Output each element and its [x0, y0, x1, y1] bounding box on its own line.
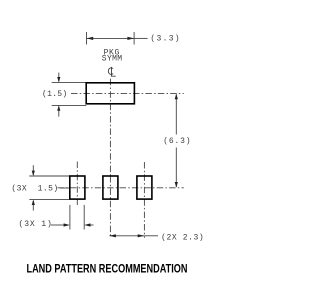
svg-text:LAND PATTERN RECOMMENDATION: LAND PATTERN RECOMMENDATION: [27, 263, 188, 275]
svg-text:(3X 1.5): (3X 1.5): [11, 184, 58, 193]
svg-text:(2X 2.3): (2X 2.3): [161, 233, 204, 242]
svg-text:SYMM: SYMM: [102, 55, 123, 64]
svg-text:(3.3): (3.3): [150, 34, 181, 43]
svg-text:(6.3): (6.3): [163, 137, 191, 146]
svg-text:(3X 1): (3X 1): [19, 220, 53, 229]
svg-text:(1.5): (1.5): [42, 90, 68, 99]
